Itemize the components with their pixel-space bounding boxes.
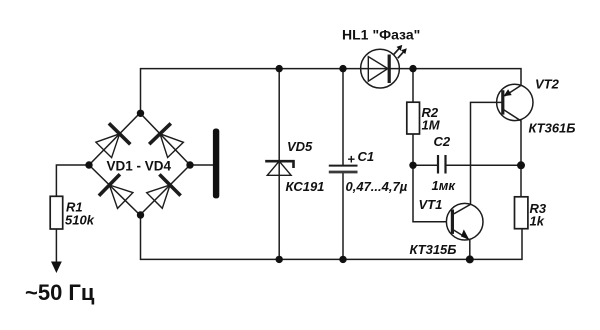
diode VD3 bottom-left arm bbox=[89, 165, 140, 215]
svg-text:C1: C1 bbox=[358, 149, 375, 164]
node bottom bridge vertex bbox=[137, 211, 144, 218]
svg-text:VD1 - VD4: VD1 - VD4 bbox=[107, 159, 172, 174]
wire VT2 collector to R3 bbox=[520, 121, 522, 197]
node R2 top bbox=[409, 65, 416, 72]
bridge rectifier VD1-VD4 bbox=[89, 113, 190, 215]
wire C2 right lead to collector node bbox=[447, 164, 521, 166]
svg-text:0,47...4,7µ: 0,47...4,7µ bbox=[346, 179, 408, 194]
resistor R2 bbox=[407, 102, 420, 134]
svg-text:VT1: VT1 bbox=[419, 197, 443, 212]
node C1 bottom bbox=[339, 256, 346, 263]
sensor plate electrode bbox=[213, 129, 219, 199]
transistor VT2 (PNP KT361B) bbox=[497, 84, 533, 121]
capacitor C1 bbox=[329, 166, 358, 172]
capacitor C2 bbox=[438, 155, 446, 174]
resistor R1 bbox=[50, 196, 63, 229]
svg-text:1k: 1k bbox=[530, 214, 545, 229]
diode VD2 top-right arm bbox=[140, 113, 190, 165]
svg-text:~50 Гц: ~50 Гц bbox=[25, 280, 95, 305]
node VT1 emitter bottom bbox=[466, 255, 474, 263]
wire VD5 branch bbox=[278, 69, 280, 260]
svg-text:C2: C2 bbox=[434, 134, 451, 149]
svg-text:HL1: HL1 bbox=[342, 27, 369, 43]
svg-text:510k: 510k bbox=[65, 213, 95, 228]
svg-text:1M: 1M bbox=[422, 118, 441, 133]
svg-text:VT2: VT2 bbox=[535, 77, 560, 92]
svg-text:КС191: КС191 bbox=[286, 179, 325, 194]
wire VT1 emitter down bbox=[469, 240, 471, 259]
node VD5 bottom bbox=[276, 256, 283, 263]
diode VD4 bottom-right arm bbox=[140, 165, 190, 215]
svg-text:"Фаза": "Фаза" bbox=[373, 27, 421, 43]
svg-text:1мк: 1мк bbox=[432, 178, 457, 193]
wire C2 left lead bbox=[413, 164, 437, 166]
wire R1 to arrow bbox=[55, 229, 57, 262]
wire C1 top bbox=[342, 69, 344, 165]
node top bridge vertex bbox=[137, 110, 144, 117]
wire bottom rail bbox=[141, 215, 523, 259]
svg-text:КТ315Б: КТ315Б bbox=[410, 242, 457, 257]
wire VT2 base to VT1 collector bbox=[471, 102, 503, 204]
svg-text:VD5: VD5 bbox=[287, 139, 313, 154]
resistor R3 bbox=[515, 197, 528, 229]
wire top rail bbox=[141, 69, 522, 114]
node C2 VT2-collector R3 junction bbox=[517, 161, 525, 169]
node right bridge vertex bbox=[186, 161, 193, 168]
wire bridge right to plate bbox=[190, 164, 213, 166]
wire R2 branch bbox=[412, 69, 414, 103]
svg-text:КТ361Б: КТ361Б bbox=[529, 121, 576, 136]
node C1 top bbox=[339, 65, 346, 72]
arrow mains input bbox=[51, 262, 62, 274]
node VD5 top bbox=[276, 65, 283, 72]
node left bridge vertex bbox=[85, 161, 92, 168]
LED HL1 bbox=[361, 45, 407, 88]
zener diode VD5 bbox=[265, 161, 293, 175]
wire R2 to C2 node down to VT1 base bbox=[413, 134, 452, 222]
svg-text:+: + bbox=[348, 152, 356, 167]
diode VD1 top-left arm bbox=[89, 113, 140, 165]
transistor VT1 (NPN KT315B) bbox=[446, 203, 483, 240]
wire C1 bottom bbox=[342, 173, 344, 260]
LED emission arrows bbox=[393, 48, 404, 58]
node R2 C2 VT1-base junction bbox=[409, 162, 416, 169]
wire bridge left to R1 bbox=[56, 165, 89, 196]
